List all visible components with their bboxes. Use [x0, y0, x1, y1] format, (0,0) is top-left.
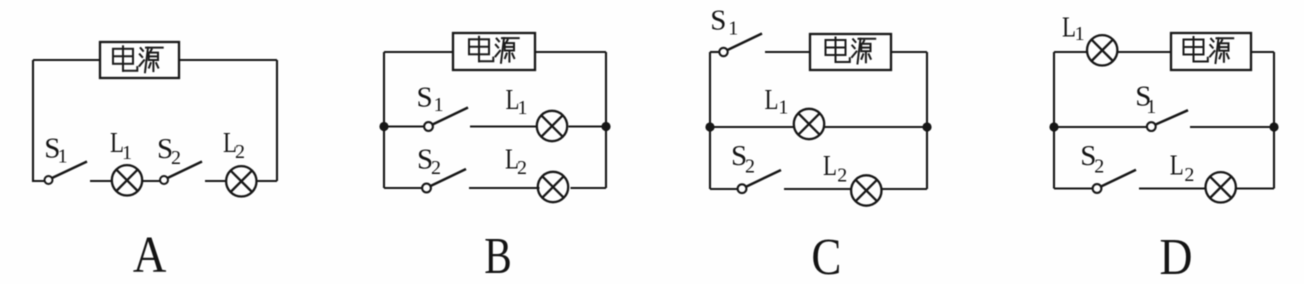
- wire: D left vertical: [1053, 52, 1055, 189]
- svg-text:2: 2: [1094, 156, 1104, 178]
- svg-text:2: 2: [235, 141, 245, 163]
- wire: B right vertical: [605, 52, 607, 188]
- wire: B left vertical: [383, 52, 385, 188]
- junction dot D left: [1049, 122, 1058, 131]
- svg-text:B: B: [484, 228, 512, 284]
- svg-text:2: 2: [1184, 164, 1194, 186]
- battery box 电源 (A): [100, 42, 179, 78]
- wire: D branch2 mid: [1139, 187, 1206, 189]
- svg-text:1: 1: [1146, 96, 1156, 118]
- wire: D top left: [1054, 51, 1088, 53]
- switch S2 (C): [738, 170, 781, 193]
- junction dot C left: [705, 122, 714, 131]
- wire: D right vertical: [1273, 52, 1275, 189]
- wire: C branch1 right: [824, 126, 928, 128]
- wire: D branch1 right: [1190, 126, 1274, 128]
- power text 电源 (C): [826, 38, 876, 64]
- switch S1 (D): [1147, 110, 1188, 131]
- power text 电源 (A): [113, 46, 163, 72]
- wire: C branch1 left: [710, 126, 795, 128]
- wire: A bottom right: [257, 180, 278, 182]
- wire: D top mid: [1117, 51, 1171, 53]
- wire: C branch2 mid: [784, 188, 852, 190]
- wire: C right vertical: [926, 52, 928, 189]
- lamp L2 (A): [226, 166, 256, 196]
- wire: D branch1 left: [1054, 126, 1147, 128]
- switch S1 (A): [45, 162, 88, 185]
- wire: B top right: [535, 51, 606, 53]
- svg-text:D: D: [1160, 229, 1193, 284]
- svg-text:2: 2: [837, 165, 847, 187]
- lamp L1 (A): [112, 165, 142, 195]
- svg-text:2: 2: [431, 157, 441, 179]
- battery box 电源 (C): [810, 34, 891, 70]
- svg-text:L: L: [1170, 149, 1184, 181]
- wire: B branch2 left: [384, 187, 422, 189]
- lamp L2 (C): [851, 175, 881, 205]
- svg-text:1: 1: [122, 142, 132, 164]
- switch S2 (D): [1093, 170, 1136, 193]
- wire: B branch2 right: [571, 187, 607, 189]
- wire: B top left: [384, 51, 453, 53]
- wire: B branch1 mid: [470, 125, 538, 127]
- switch S2 (A): [160, 162, 202, 185]
- svg-text:2: 2: [517, 157, 527, 179]
- wire: A between L1 and S2: [143, 180, 161, 182]
- svg-text:L: L: [823, 150, 837, 182]
- lamp L2 (B): [538, 172, 568, 202]
- wire: B branch1 left: [384, 125, 424, 127]
- wire: C left vertical: [709, 52, 711, 189]
- svg-text:1: 1: [518, 97, 528, 119]
- junction dot B right: [601, 122, 610, 131]
- svg-text:S: S: [710, 5, 726, 37]
- wire: C branch2 left: [710, 188, 737, 190]
- battery box 电源 (B): [453, 33, 535, 70]
- battery box 电源 (D): [1171, 33, 1251, 70]
- junction dot C right: [922, 122, 931, 131]
- svg-text:2: 2: [745, 156, 755, 178]
- switch S1 (C): [719, 34, 762, 57]
- lamp L1 (D): [1087, 35, 1117, 65]
- wire: C top mid: [765, 51, 810, 53]
- svg-text:A: A: [133, 227, 167, 284]
- wire: D branch2 right: [1236, 187, 1274, 189]
- wire: A between S1 and L1: [90, 180, 112, 182]
- svg-text:1: 1: [778, 97, 788, 119]
- svg-text:1: 1: [434, 94, 444, 116]
- wire: A between S2 and L2: [205, 180, 226, 182]
- power text 电源 (B): [469, 37, 519, 63]
- svg-text:L: L: [765, 84, 779, 116]
- svg-text:1: 1: [58, 146, 68, 168]
- wire: C top to S1: [710, 51, 719, 53]
- wire: D branch2 left: [1054, 187, 1093, 189]
- wire: B branch2 mid: [469, 187, 540, 189]
- wire: A left vertical: [33, 60, 44, 181]
- wire: A top right: [179, 59, 277, 61]
- svg-text:1: 1: [728, 18, 738, 40]
- switch S1 (B): [424, 108, 468, 131]
- junction dot B left: [379, 122, 388, 131]
- switch S2 (B): [422, 169, 466, 192]
- wire: A top left: [33, 59, 100, 61]
- wire: D top right: [1251, 51, 1274, 53]
- svg-text:2: 2: [171, 147, 181, 169]
- svg-text:C: C: [811, 229, 841, 284]
- wire: B branch1 right: [569, 125, 607, 127]
- svg-text:1: 1: [1075, 23, 1085, 45]
- wire: A right vertical: [276, 60, 278, 181]
- junction dot D right: [1269, 122, 1278, 131]
- wire: C branch2 right: [881, 188, 927, 190]
- lamp L1 (C): [794, 109, 824, 139]
- lamp L1 (B): [537, 111, 567, 141]
- lamp L2 (D): [1206, 172, 1236, 202]
- power text 电源 (D): [1184, 37, 1234, 63]
- wire: C top right: [891, 51, 927, 53]
- svg-text:S: S: [417, 82, 433, 114]
